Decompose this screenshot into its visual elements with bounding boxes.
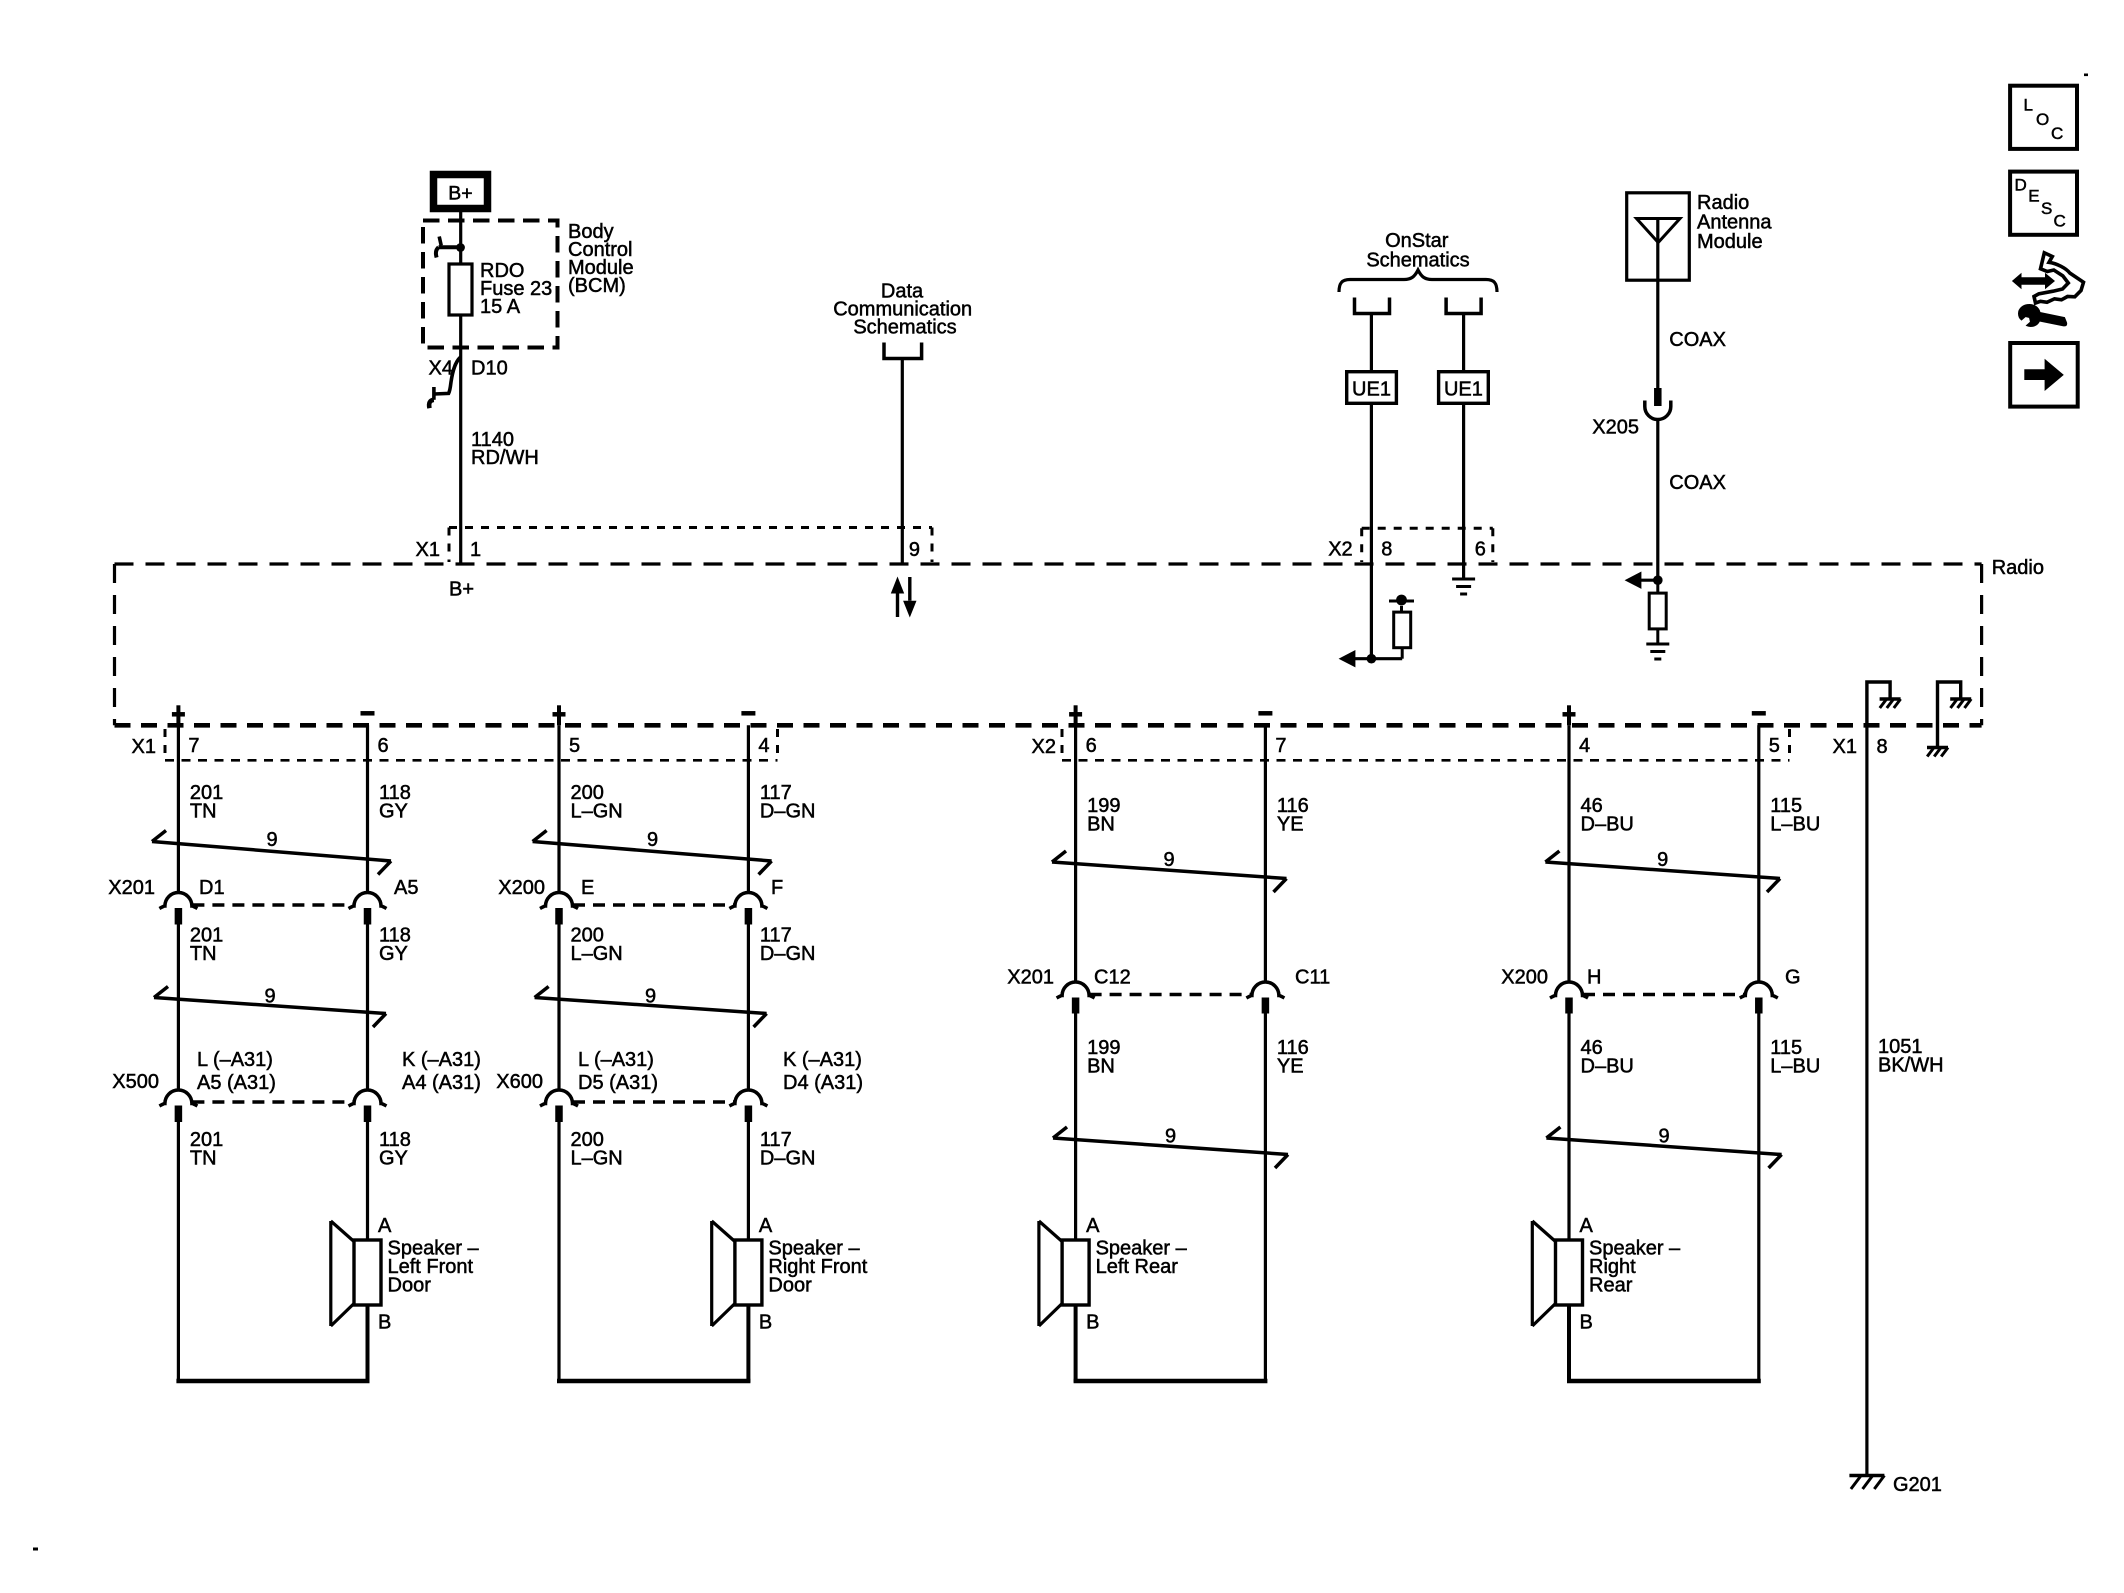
svg-text:COAX: COAX — [1669, 472, 1726, 494]
OnStar schematics callout — [1366, 230, 1469, 272]
twisted pair symbol — [533, 829, 772, 875]
svg-text:D1: D1 — [199, 877, 225, 899]
wire 200 L–GN lower — [559, 1122, 623, 1383]
svg-text:8: 8 — [1877, 736, 1888, 758]
svg-text:1: 1 — [470, 539, 481, 561]
interactive hand icon — [2012, 253, 2084, 327]
svg-text:X2: X2 — [1328, 539, 1352, 561]
power symbol B+ box — [434, 175, 488, 209]
node RF minus pin 4 — [741, 713, 769, 757]
svg-text:BN: BN — [1087, 814, 1115, 836]
inline connector X200 pins H/G — [1501, 967, 1800, 1014]
speck bottom left — [33, 1548, 38, 1551]
svg-text:BN: BN — [1087, 1056, 1115, 1078]
svg-text:7: 7 — [1275, 735, 1286, 757]
pin 6 — [1475, 539, 1486, 561]
svg-text:D–BU: D–BU — [1581, 814, 1634, 836]
connector X4 pin D10 — [429, 357, 508, 408]
svg-text:C: C — [2051, 124, 2063, 143]
wire 118 GY middle — [368, 925, 411, 1091]
wire right OnStar drop — [1462, 314, 1465, 372]
wire 201 TN lower — [178, 1122, 223, 1383]
wire 46 D–BU middle — [1569, 1014, 1634, 1241]
svg-text:B: B — [1086, 1312, 1099, 1334]
twisted pair symbol — [1546, 1126, 1781, 1169]
fuse RDO Fuse 23 15 A — [449, 260, 552, 318]
svg-text:TN: TN — [190, 1148, 217, 1170]
svg-text:C11: C11 — [1295, 967, 1330, 989]
resistor (antenna load) — [1649, 580, 1666, 644]
wire 117 D–GN lower — [748, 1122, 815, 1240]
svg-text:5: 5 — [569, 735, 580, 757]
svg-text:Rear: Rear — [1589, 1275, 1633, 1297]
wire to radio pin 9 — [901, 359, 904, 565]
pin 1 — [470, 539, 481, 561]
inline connector X200 pins E/F — [498, 877, 783, 925]
svg-text:L–GN: L–GN — [571, 801, 623, 823]
svg-text:TN: TN — [190, 801, 217, 823]
wire 200 L–GN middle — [559, 925, 623, 1091]
node LF plus pin 7 — [172, 705, 200, 757]
svg-text:D–BU: D–BU — [1581, 1056, 1634, 1078]
coax wire lower — [1658, 420, 1726, 565]
node LR minus pin 7 — [1258, 713, 1286, 757]
svg-text:L–GN: L–GN — [571, 943, 623, 965]
svg-text:4: 4 — [1579, 735, 1590, 757]
svg-text:X4: X4 — [429, 358, 453, 380]
svg-text:A5: A5 — [394, 877, 418, 899]
wire coax interior — [1656, 564, 1659, 580]
right bracket to OnStar — [1446, 298, 1481, 314]
svg-text:YE: YE — [1277, 814, 1304, 836]
ground (OnStar pin 6) — [1452, 579, 1475, 594]
svg-text:D5 (A31): D5 (A31) — [578, 1072, 658, 1094]
svg-text:UE1: UE1 — [1352, 379, 1391, 401]
svg-text:L–BU: L–BU — [1770, 814, 1820, 836]
wire left OnStar drop — [1370, 314, 1373, 372]
svg-text:Schematics: Schematics — [853, 317, 956, 339]
inline connector X201 pins D1/A5 — [108, 877, 418, 925]
svg-text:B+: B+ — [449, 579, 474, 601]
svg-text:D–GN: D–GN — [760, 943, 816, 965]
twisted pair symbol — [1053, 1126, 1288, 1169]
wire 199 BN upper — [1076, 725, 1121, 982]
svg-text:4: 4 — [758, 735, 769, 757]
data communication schematics callout — [833, 281, 972, 359]
svg-text:RD/WH: RD/WH — [471, 447, 539, 469]
svg-text:S: S — [2041, 199, 2052, 218]
current tap hook inside BCM — [436, 237, 465, 258]
svg-text:GY: GY — [379, 801, 408, 823]
svg-text:L (–A31): L (–A31) — [578, 1049, 654, 1071]
wire UE1 left to X2 pin 8 — [1370, 403, 1373, 564]
svg-text:D: D — [2015, 175, 2027, 194]
BCM label — [568, 221, 634, 297]
radio component dashed box — [115, 557, 2044, 725]
svg-text:15 A: 15 A — [480, 296, 521, 318]
svg-text:X200: X200 — [1501, 967, 1548, 989]
svg-text:COAX: COAX — [1669, 329, 1726, 351]
svg-text:C: C — [2054, 212, 2066, 231]
connector X2 dotted box pins 8,6 — [1328, 528, 1493, 562]
svg-text:E: E — [581, 877, 594, 899]
net UE1 right — [1439, 372, 1489, 404]
svg-text:X2: X2 — [1032, 736, 1056, 758]
svg-text:B: B — [759, 1312, 772, 1334]
svg-text:X200: X200 — [498, 877, 545, 899]
wire 116 YE middle — [1265, 1014, 1308, 1383]
coax wire upper — [1658, 280, 1726, 388]
node LF minus pin 6 — [361, 713, 389, 757]
svg-text:GY: GY — [379, 943, 408, 965]
wire UE1 right to X2 pin 6 — [1462, 403, 1465, 564]
svg-text:X1: X1 — [1833, 736, 1857, 758]
svg-text:9: 9 — [645, 986, 656, 1008]
svg-text:6: 6 — [1086, 735, 1097, 757]
svg-text:9: 9 — [909, 539, 920, 561]
svg-text:9: 9 — [1163, 849, 1174, 871]
connector X205 — [1592, 388, 1671, 439]
svg-text:X201: X201 — [1007, 967, 1054, 989]
node RR plus pin 4 — [1563, 705, 1591, 757]
speaker Left Rear — [1039, 1215, 1188, 1334]
DESC icon — [2010, 172, 2077, 235]
twisted pair symbol — [535, 986, 767, 1028]
antenna tap symbol — [1389, 595, 1414, 606]
wire 115 L–BU middle — [1759, 1014, 1821, 1383]
wire 199 BN middle — [1076, 1014, 1121, 1241]
wire speaker return loop — [1567, 1305, 1761, 1383]
connector X1 dotted box pins 7,6,5,4 — [132, 729, 778, 760]
svg-text:L–GN: L–GN — [571, 1148, 623, 1170]
svg-text:O: O — [2036, 110, 2049, 129]
svg-text:UE1: UE1 — [1444, 379, 1483, 401]
bidirectional data arrows — [891, 577, 917, 618]
wire from B+ to BCM fuse — [459, 212, 462, 364]
twisted pair symbol — [1052, 849, 1287, 892]
case ground loop pin 8 — [1867, 682, 1901, 725]
wire 1051 BK/WH — [1867, 725, 1944, 1474]
svg-text:H: H — [1587, 967, 1601, 989]
LOC icon — [2010, 86, 2077, 149]
svg-text:Door: Door — [768, 1275, 812, 1297]
svg-text:D10: D10 — [471, 358, 508, 380]
wire 115 L–BU upper — [1759, 725, 1821, 982]
svg-text:K (–A31): K (–A31) — [402, 1049, 481, 1071]
body control module BCM dashed box — [423, 221, 558, 348]
wire speaker return loop — [557, 1305, 750, 1383]
svg-text:9: 9 — [266, 829, 277, 851]
node RR minus pin 5 — [1752, 713, 1780, 757]
wire 117 D–GN middle — [748, 925, 815, 1091]
wire radio pin 8 interior — [1370, 564, 1373, 659]
svg-text:D–GN: D–GN — [760, 1148, 816, 1170]
svg-text:5: 5 — [1769, 735, 1780, 757]
speaker Right Front Door — [712, 1215, 868, 1334]
svg-text:L–BU: L–BU — [1770, 1056, 1820, 1078]
inline connector X500 — [112, 1049, 481, 1122]
svg-text:E: E — [2028, 187, 2039, 206]
pin 9 — [909, 539, 920, 561]
svg-text:Module: Module — [1697, 231, 1763, 253]
wire 1140 RD/WH — [461, 363, 539, 564]
wire 117 D–GN upper — [748, 725, 815, 892]
svg-text:D4 (A31): D4 (A31) — [783, 1072, 863, 1094]
ground (antenna) — [1646, 644, 1669, 659]
wire 116 YE upper — [1265, 725, 1308, 982]
svg-text:6: 6 — [378, 735, 389, 757]
svg-text:GY: GY — [379, 1148, 408, 1170]
svg-text:(BCM): (BCM) — [568, 275, 626, 297]
svg-text:X201: X201 — [108, 877, 155, 899]
svg-text:X600: X600 — [496, 1071, 543, 1093]
svg-text:X500: X500 — [112, 1071, 159, 1093]
wire speaker return loop — [176, 1305, 369, 1383]
node B+ at radio pin 1 — [449, 579, 474, 601]
svg-text:G: G — [1785, 967, 1801, 989]
wire 46 D–BU upper — [1569, 725, 1634, 982]
svg-text:L (–A31): L (–A31) — [197, 1049, 273, 1071]
svg-text:YE: YE — [1277, 1056, 1304, 1078]
speaker Right Rear — [1532, 1215, 1681, 1334]
svg-text:8: 8 — [1381, 539, 1392, 561]
curly brace — [1339, 270, 1497, 292]
resistor in radio (OnStar input) — [1394, 606, 1411, 659]
svg-text:BK/WH: BK/WH — [1878, 1055, 1944, 1077]
svg-text:K (–A31): K (–A31) — [783, 1049, 862, 1071]
svg-text:L: L — [2024, 96, 2033, 115]
svg-text:D–GN: D–GN — [760, 801, 816, 823]
svg-text:9: 9 — [1657, 849, 1668, 871]
svg-text:A4 (A31): A4 (A31) — [402, 1072, 481, 1094]
twisted pair symbol — [152, 829, 391, 875]
node LR plus pin 6 — [1069, 705, 1097, 757]
svg-text:G201: G201 — [1893, 1474, 1942, 1496]
speaker Left Front Door — [331, 1215, 480, 1334]
svg-text:9: 9 — [647, 829, 658, 851]
node RF plus pin 5 — [553, 705, 581, 757]
svg-text:A: A — [1580, 1215, 1594, 1237]
left bracket to OnStar — [1355, 298, 1390, 314]
wire radio pin 6 interior to ground — [1462, 564, 1465, 579]
inline connector X600 — [496, 1049, 863, 1122]
connector X1 dotted box pins 1,9 — [416, 528, 932, 563]
svg-text:C12: C12 — [1094, 967, 1131, 989]
svg-text:X1: X1 — [416, 539, 440, 561]
signal arrow left (antenna) — [1625, 572, 1663, 589]
wire 201 TN upper — [178, 725, 223, 892]
svg-text:B: B — [378, 1312, 391, 1334]
svg-text:F: F — [771, 877, 783, 899]
wire 201 TN middle — [178, 925, 223, 1091]
svg-text:Door: Door — [388, 1275, 432, 1297]
svg-text:B+: B+ — [448, 183, 472, 205]
twisted pair symbol — [1545, 849, 1780, 892]
ground G201 — [1849, 1474, 1942, 1496]
svg-text:A5 (A31): A5 (A31) — [197, 1072, 276, 1094]
svg-text:Radio: Radio — [1992, 557, 2044, 579]
svg-text:9: 9 — [1658, 1126, 1669, 1148]
svg-text:7: 7 — [188, 735, 199, 757]
net UE1 left — [1347, 372, 1397, 404]
case ground loop internal — [1938, 682, 1972, 747]
wire speaker return loop — [1074, 1305, 1268, 1383]
pin 8 — [1381, 539, 1392, 561]
svg-text:6: 6 — [1475, 539, 1486, 561]
radio antenna module — [1627, 192, 1773, 280]
chassis ground below radio — [1927, 748, 1948, 757]
wire 118 GY upper — [368, 725, 411, 892]
signal arrow left — [1339, 650, 1403, 667]
svg-text:X205: X205 — [1592, 417, 1639, 439]
svg-text:A: A — [1086, 1215, 1100, 1237]
svg-text:A: A — [378, 1215, 392, 1237]
wire 118 GY lower — [368, 1122, 411, 1240]
svg-text:A: A — [759, 1215, 773, 1237]
inline connector X201 pins C12/C11 — [1007, 967, 1330, 1014]
svg-text:9: 9 — [1165, 1126, 1176, 1148]
next page arrow icon — [2010, 343, 2078, 407]
svg-text:Left Rear: Left Rear — [1096, 1256, 1179, 1278]
svg-text:9: 9 — [264, 986, 275, 1008]
twisted pair symbol — [154, 986, 386, 1028]
svg-text:TN: TN — [190, 943, 217, 965]
speck top right — [2084, 74, 2088, 77]
wire 200 L–GN upper — [559, 725, 623, 892]
connector X2 dotted box pins 6,7,4,5 — [1032, 729, 1790, 760]
connector X1 pin 8 label — [1833, 736, 1888, 758]
svg-text:B: B — [1580, 1312, 1593, 1334]
svg-text:X1: X1 — [132, 736, 156, 758]
